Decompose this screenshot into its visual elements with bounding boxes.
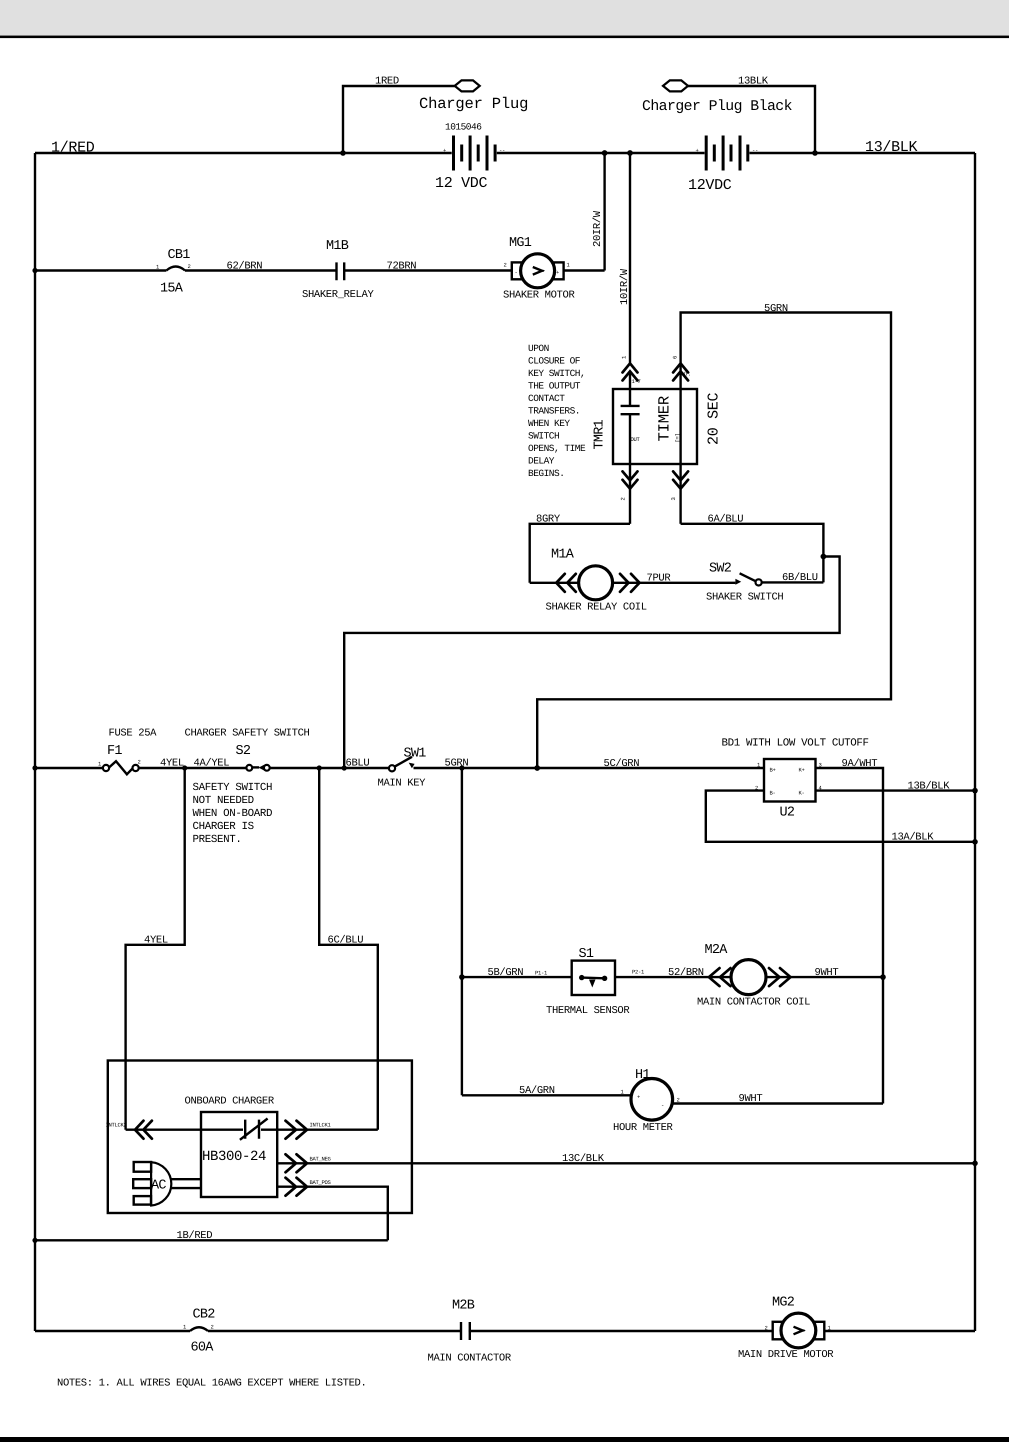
wire INTLCK1 <box>261 1121 378 1139</box>
left rail 1/RED vertical <box>34 153 36 1331</box>
wire 5GRN from timer pin 6 <box>537 303 891 768</box>
svg-text:CLOSURE OF: CLOSURE OF <box>528 356 581 367</box>
svg-text:NOT NEEDED: NOT NEEDED <box>193 795 254 807</box>
svg-text:SHAKER SWITCH: SHAKER SWITCH <box>706 592 783 604</box>
svg-text:FUSE 25A: FUSE 25A <box>109 728 158 740</box>
svg-text:2: 2 <box>504 262 507 269</box>
svg-text:10IR/W: 10IR/W <box>619 268 631 305</box>
svg-text:1015046: 1015046 <box>445 122 482 133</box>
wire 5GRN 5C/GRN rail to U2 <box>414 757 765 771</box>
charger plug connector 2 (black) <box>642 80 793 115</box>
timer pin 2 connector <box>620 464 638 524</box>
svg-text:15A: 15A <box>160 282 184 297</box>
bottom rail M2B to MG2 <box>469 1330 773 1332</box>
node 1/RED top rail <box>35 140 452 157</box>
wire 8GRY from timer pin 2 <box>530 514 630 583</box>
relay coil M1A SHAKER RELAY COIL <box>530 548 736 614</box>
svg-text:5GRN: 5GRN <box>445 757 469 769</box>
svg-text:SW2: SW2 <box>709 562 732 577</box>
svg-text:K+: K+ <box>799 767 805 774</box>
onboard charger outer box <box>108 1061 412 1214</box>
svg-text:TMR1: TMR1 <box>593 419 608 449</box>
svg-text:CHARGER IS: CHARGER IS <box>193 821 254 833</box>
svg-text:1/RED: 1/RED <box>51 140 95 157</box>
svg-text:60A: 60A <box>191 1341 215 1356</box>
svg-text:2: 2 <box>138 759 141 766</box>
wire charger plug black to rail <box>688 76 818 156</box>
switch SW1 MAIN KEY <box>378 747 427 790</box>
svg-text:M1A: M1A <box>551 548 575 563</box>
AC plug <box>133 1162 201 1206</box>
timer TMR1 box <box>593 389 723 464</box>
svg-text:2: 2 <box>765 1325 768 1332</box>
svg-text:SW1: SW1 <box>404 747 427 762</box>
wire battery1 to battery2 <box>497 152 705 154</box>
svg-text:B-: B- <box>770 790 776 797</box>
wire 20IR/W vertical <box>592 150 607 270</box>
svg-text:4A/YEL: 4A/YEL <box>194 758 230 770</box>
svg-text:HB300-24: HB300-24 <box>202 1149 266 1165</box>
battery discharge indicator U2 BD1 <box>722 738 869 821</box>
svg-text:1-7: 1-7 <box>632 378 641 385</box>
svg-text:9A/WHT: 9A/WHT <box>842 758 878 770</box>
svg-text:WHEN ON-BOARD: WHEN ON-BOARD <box>193 808 273 820</box>
svg-text:TIMER: TIMER <box>656 396 674 442</box>
svg-text:62/BRN: 62/BRN <box>227 261 263 273</box>
svg-text:ONBOARD CHARGER: ONBOARD CHARGER <box>185 1096 275 1108</box>
svg-text:6A/BLU: 6A/BLU <box>708 514 744 526</box>
bottom rail MG2 to right rail <box>824 1330 975 1332</box>
interlock contact inside charger <box>240 1119 268 1140</box>
svg-text:13C/BLK: 13C/BLK <box>562 1153 605 1165</box>
timer internal wire pin6 <box>679 389 681 464</box>
svg-text:5C/GRN: 5C/GRN <box>604 758 640 770</box>
svg-text:BAT_POS: BAT_POS <box>310 1179 332 1186</box>
switch SW2 SHAKER SWITCH <box>706 562 823 604</box>
svg-text:BAT_NEG: BAT_NEG <box>310 1156 331 1163</box>
wire rail S2 to SW1 <box>182 757 389 770</box>
svg-text:12 VDC: 12 VDC <box>435 175 488 192</box>
svg-text:-: - <box>515 269 518 276</box>
svg-text:5GRN: 5GRN <box>764 303 788 315</box>
svg-text:NOTES: 1. ALL WIRES EQUAL 16AW: NOTES: 1. ALL WIRES EQUAL 16AWG EXCEPT W… <box>57 1378 366 1390</box>
motor MG2 MAIN DRIVE MOTOR <box>738 1296 834 1362</box>
svg-text:OUT: OUT <box>631 436 641 443</box>
wire 5A/GRN to hour meter <box>462 1085 632 1097</box>
svg-text:9WHT: 9WHT <box>815 967 839 979</box>
svg-text:1RED: 1RED <box>375 76 399 88</box>
svg-text:INTLCK2: INTLCK2 <box>106 1122 127 1129</box>
svg-text:4YEL: 4YEL <box>160 758 184 770</box>
svg-text:PRESENT.: PRESENT. <box>193 834 242 846</box>
svg-text:+: + <box>443 147 446 154</box>
svg-text:CONTACT: CONTACT <box>528 393 565 404</box>
svg-text:MG2: MG2 <box>772 1296 795 1311</box>
svg-text:Charger Plug Black: Charger Plug Black <box>642 99 793 115</box>
svg-text:Charger Plug: Charger Plug <box>419 95 528 113</box>
svg-text:6: 6 <box>672 356 679 359</box>
hour meter H1 <box>613 1068 680 1134</box>
svg-text:MG1: MG1 <box>509 236 532 251</box>
wire 13B/BLK from U2 pin 4 <box>816 780 978 793</box>
svg-text:SHAKER MOTOR: SHAKER MOTOR <box>503 290 575 302</box>
svg-text:SHAKER_RELAY: SHAKER_RELAY <box>302 289 374 301</box>
svg-text:INTLCK1: INTLCK1 <box>310 1122 332 1129</box>
svg-text:B+: B+ <box>770 767 776 774</box>
svg-text:13B/BLK: 13B/BLK <box>908 780 951 792</box>
svg-text:CB2: CB2 <box>193 1308 216 1323</box>
svg-text:S2: S2 <box>236 744 251 759</box>
note safety switch not needed <box>193 782 273 846</box>
wire 9A/WHT from U2 pin 3 <box>816 758 884 1104</box>
svg-text:+: + <box>696 147 699 154</box>
svg-text:72BRN: 72BRN <box>387 261 417 273</box>
svg-text:BEGINS.: BEGINS. <box>528 468 564 479</box>
timer pin 6 connector <box>672 356 692 389</box>
svg-text:MAIN KEY: MAIN KEY <box>378 778 427 790</box>
svg-text:SAFETY SWITCH: SAFETY SWITCH <box>193 782 273 794</box>
svg-text:P1-1: P1-1 <box>535 970 548 977</box>
svg-text:3: 3 <box>670 497 677 500</box>
bottom rail CB2 to M2B <box>208 1330 460 1332</box>
contactor contact M2B MAIN CONTACTOR <box>428 1299 512 1365</box>
svg-text:K-: K- <box>799 790 805 797</box>
svg-text:S1: S1 <box>579 947 594 962</box>
svg-text:52/BRN: 52/BRN <box>668 967 704 979</box>
contactor coil M2A MAIN CONTACTOR COIL <box>697 943 886 1009</box>
svg-text:SHAKER RELAY COIL: SHAKER RELAY COIL <box>546 602 647 614</box>
svg-text:MAIN DRIVE MOTOR: MAIN DRIVE MOTOR <box>738 1349 834 1361</box>
svg-text:+: + <box>637 1094 640 1101</box>
timer pin 3 connector <box>670 464 688 524</box>
svg-text:UPON: UPON <box>528 343 549 354</box>
battery 2 12VDC <box>688 136 758 195</box>
wire 4YEL <box>139 758 247 770</box>
circuit breaker CB2 60A <box>183 1308 215 1356</box>
wire 13A/BLK from U2 pin 2 <box>706 791 978 845</box>
motor MG1 SHAKER MOTOR <box>503 236 575 302</box>
svg-text:SWITCH: SWITCH <box>528 431 559 442</box>
svg-text:20 SEC: 20 SEC <box>706 392 723 445</box>
svg-text:6C/BLU: 6C/BLU <box>328 934 364 946</box>
note upon closure of key switch <box>528 343 586 479</box>
svg-text:5B/GRN: 5B/GRN <box>488 967 524 979</box>
svg-text:P2-1: P2-1 <box>632 969 645 976</box>
svg-text:H1: H1 <box>635 1068 650 1083</box>
svg-text:20IR/W: 20IR/W <box>592 210 604 247</box>
svg-text:6BLU: 6BLU <box>346 757 370 769</box>
svg-text:13BLK: 13BLK <box>738 76 769 88</box>
svg-text:KEY SWITCH,: KEY SWITCH, <box>528 368 585 379</box>
wire MG1 to 20IR/W vertical <box>564 269 605 271</box>
svg-text:8GRY: 8GRY <box>536 514 561 526</box>
PAGE_HEADER <box>0 0 1009 35</box>
svg-text:HOUR METER: HOUR METER <box>613 1122 674 1134</box>
svg-text:13A/BLK: 13A/BLK <box>892 831 935 843</box>
timer pin 1 connector <box>621 355 641 406</box>
svg-text:THE OUTPUT: THE OUTPUT <box>528 381 581 392</box>
svg-text:+: + <box>556 269 559 276</box>
svg-text:DELAY: DELAY <box>528 456 555 467</box>
svg-text:9WHT: 9WHT <box>739 1093 763 1105</box>
capacitor inside timer <box>621 406 641 464</box>
svg-text:-: - <box>661 1102 664 1109</box>
svg-text:THERMAL SENSOR: THERMAL SENSOR <box>546 1005 630 1017</box>
svg-text:CHARGER SAFETY SWITCH: CHARGER SAFETY SWITCH <box>185 728 310 740</box>
relay contact M1B SHAKER_RELAY <box>302 239 374 301</box>
svg-text:M2A: M2A <box>705 943 729 958</box>
switch S2 CHARGER SAFETY SWITCH <box>185 728 310 771</box>
svg-text:MAIN CONTACTOR: MAIN CONTACTOR <box>428 1353 512 1365</box>
wire BAT_POS <box>277 1178 388 1241</box>
svg-text:13/BLK: 13/BLK <box>865 139 918 156</box>
main key rail from left rail <box>32 765 102 770</box>
svg-text:NT.: NT. <box>682 371 691 378</box>
wire branch to 6BLU <box>344 554 839 768</box>
svg-text:TRANSFERS.: TRANSFERS. <box>528 406 580 417</box>
node 13/BLK top rail <box>750 139 976 156</box>
thermal sensor S1 <box>546 947 630 1017</box>
wire 6C/BLU branch down <box>319 768 378 1130</box>
right rail 13/BLK vertical <box>974 153 976 1331</box>
svg-text:M2B: M2B <box>452 1299 475 1314</box>
svg-text:WHEN KEY: WHEN KEY <box>528 418 570 429</box>
charger plug connector 1 <box>419 80 528 113</box>
svg-text:7PUR: 7PUR <box>647 573 672 585</box>
svg-text:4YEL: 4YEL <box>144 934 168 946</box>
wire shaker row from left rail <box>32 268 166 273</box>
wire to charger plug 1 <box>340 76 455 156</box>
wire 10IR/W vertical <box>619 150 633 363</box>
svg-text:MAIN CONTACTOR COIL: MAIN CONTACTOR COIL <box>697 997 810 1009</box>
svg-text:OPENS, TIME: OPENS, TIME <box>528 443 586 454</box>
wire 72BRN <box>344 261 512 273</box>
svg-text:6B/BLU: 6B/BLU <box>782 572 818 584</box>
wire INTLCK2 <box>106 1121 244 1139</box>
svg-text:2: 2 <box>620 497 627 500</box>
svg-text:1B/RED: 1B/RED <box>177 1230 213 1242</box>
wire 9WHT hour meter to 9A/WHT vertical <box>672 1093 883 1105</box>
svg-text:2: 2 <box>211 1324 214 1331</box>
circuit breaker CB1 15A <box>156 248 191 297</box>
wire 62/BRN <box>185 261 336 273</box>
wire 52/BRN <box>615 967 731 979</box>
svg-text:AC: AC <box>151 1179 166 1194</box>
wire 1B/RED to left rail <box>32 1230 387 1243</box>
fuse F1 FUSE 25A <box>98 728 157 775</box>
wire 4YEL branch down <box>126 768 185 1130</box>
wire BAT_NEG 13C/BLK <box>277 1153 978 1173</box>
bottom rail left segment <box>35 1330 190 1332</box>
battery 1 12VDC 1015046 <box>435 122 505 193</box>
svg-text:BD1 WITH LOW VOLT CUTOFF: BD1 WITH LOW VOLT CUTOFF <box>722 738 869 750</box>
svg-text:M1B: M1B <box>326 239 349 254</box>
wire 5B/GRN branch down <box>459 768 572 1095</box>
svg-text:2: 2 <box>188 263 191 270</box>
svg-text:CB1: CB1 <box>168 248 191 263</box>
wire 6A/BLU from timer pin 3 <box>681 514 824 583</box>
svg-text:5A/GRN: 5A/GRN <box>519 1085 555 1097</box>
svg-text:U2: U2 <box>780 806 795 821</box>
charger inner box HB300-24 <box>201 1112 277 1197</box>
svg-text:F1: F1 <box>107 744 122 759</box>
svg-text:12VDC: 12VDC <box>688 177 732 194</box>
